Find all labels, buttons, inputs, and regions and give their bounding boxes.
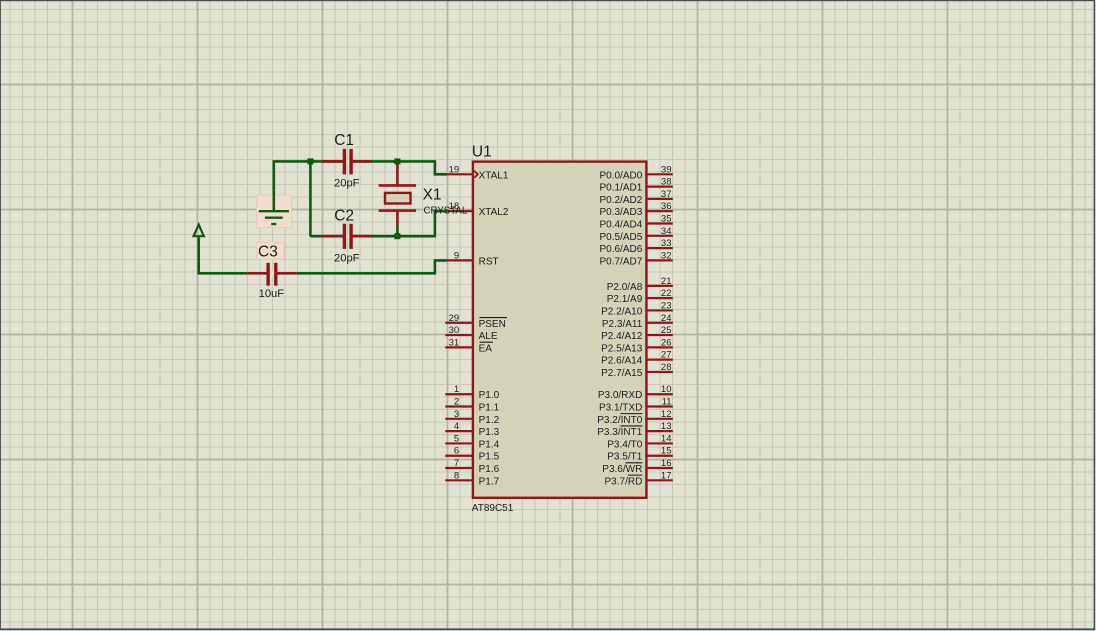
svg-text:24: 24 (661, 313, 672, 324)
svg-text:P2.0/A8: P2.0/A8 (607, 282, 643, 293)
svg-text:34: 34 (661, 226, 672, 237)
svg-text:P1.6: P1.6 (479, 464, 500, 475)
svg-text:9: 9 (454, 250, 459, 261)
svg-text:2: 2 (454, 397, 459, 408)
svg-text:P2.4/A12: P2.4/A12 (601, 331, 643, 342)
svg-text:20pF: 20pF (334, 252, 360, 264)
svg-text:38: 38 (661, 177, 672, 188)
svg-text:P1.1: P1.1 (479, 403, 500, 414)
svg-text:1: 1 (454, 384, 459, 395)
svg-text:RST: RST (479, 256, 499, 267)
svg-text:P2.2/A10: P2.2/A10 (601, 306, 643, 317)
svg-text:P3.7/RD: P3.7/RD (605, 476, 643, 487)
svg-text:11: 11 (662, 397, 672, 408)
svg-text:P1.4: P1.4 (479, 439, 500, 450)
svg-text:15: 15 (661, 446, 672, 457)
svg-text:20pF: 20pF (334, 177, 360, 189)
svg-text:P3.1/TXD: P3.1/TXD (599, 403, 642, 414)
svg-text:39: 39 (661, 164, 672, 175)
svg-text:XTAL2: XTAL2 (479, 207, 509, 218)
svg-text:32: 32 (661, 250, 672, 261)
svg-text:33: 33 (661, 238, 672, 249)
svg-text:P3.3/INT1: P3.3/INT1 (597, 427, 642, 438)
svg-text:8: 8 (454, 470, 459, 481)
svg-text:P1.2: P1.2 (479, 415, 500, 426)
svg-text:P0.7/AD7: P0.7/AD7 (599, 256, 642, 267)
svg-text:26: 26 (661, 337, 672, 348)
svg-text:27: 27 (661, 350, 672, 361)
svg-text:29: 29 (449, 313, 460, 324)
svg-text:7: 7 (454, 458, 459, 469)
svg-text:P2.1/A9: P2.1/A9 (607, 294, 643, 305)
svg-text:PSEN: PSEN (479, 319, 506, 330)
svg-text:10: 10 (661, 384, 672, 395)
svg-text:AT89C51: AT89C51 (472, 503, 514, 514)
svg-text:P2.3/A11: P2.3/A11 (602, 319, 643, 330)
svg-text:16: 16 (661, 458, 672, 469)
svg-text:22: 22 (661, 288, 672, 299)
svg-text:P0.6/AD6: P0.6/AD6 (599, 244, 642, 255)
svg-text:P2.7/A15: P2.7/A15 (601, 368, 643, 379)
svg-text:P3.5/T1: P3.5/T1 (607, 452, 642, 463)
svg-text:CRYSTAL: CRYSTAL (424, 206, 468, 217)
svg-text:P3.4/T0: P3.4/T0 (607, 439, 642, 450)
svg-text:P2.6/A14: P2.6/A14 (601, 356, 643, 367)
svg-text:31: 31 (449, 337, 460, 348)
svg-text:P1.3: P1.3 (479, 427, 500, 438)
svg-text:13: 13 (661, 421, 672, 432)
svg-text:P0.1/AD1: P0.1/AD1 (599, 183, 642, 194)
svg-text:35: 35 (661, 214, 672, 225)
svg-text:P0.4/AD4: P0.4/AD4 (599, 220, 642, 231)
svg-text:P3.0/RXD: P3.0/RXD (598, 390, 642, 401)
svg-text:ALE: ALE (479, 331, 498, 342)
svg-text:C1: C1 (334, 132, 354, 149)
svg-text:P1.5: P1.5 (479, 452, 500, 463)
svg-text:28: 28 (661, 362, 672, 373)
svg-text:P0.5/AD5: P0.5/AD5 (599, 232, 642, 243)
svg-text:P0.0/AD0: P0.0/AD0 (599, 170, 642, 181)
svg-text:P0.2/AD2: P0.2/AD2 (599, 195, 642, 206)
svg-text:C2: C2 (334, 208, 354, 225)
svg-text:10uF: 10uF (259, 288, 285, 300)
svg-text:14: 14 (661, 433, 672, 444)
svg-text:P0.3/AD3: P0.3/AD3 (599, 207, 642, 218)
svg-text:5: 5 (454, 433, 459, 444)
svg-text:37: 37 (661, 189, 672, 200)
svg-text:P1.0: P1.0 (479, 390, 500, 401)
svg-text:4: 4 (454, 421, 459, 432)
svg-text:XTAL1: XTAL1 (479, 170, 509, 181)
svg-text:21: 21 (661, 276, 672, 287)
svg-text:P2.5/A13: P2.5/A13 (601, 343, 643, 354)
svg-text:3: 3 (454, 409, 459, 420)
svg-text:17: 17 (661, 470, 672, 481)
svg-text:25: 25 (661, 325, 672, 336)
svg-text:23: 23 (661, 300, 672, 311)
svg-text:19: 19 (449, 164, 460, 175)
svg-text:C3: C3 (258, 243, 278, 260)
svg-text:P1.7: P1.7 (479, 476, 500, 487)
svg-text:12: 12 (661, 409, 672, 420)
svg-text:6: 6 (454, 446, 459, 457)
svg-text:P3.2/INT0: P3.2/INT0 (597, 415, 642, 426)
svg-text:36: 36 (661, 201, 672, 212)
svg-text:X1: X1 (423, 186, 442, 203)
svg-text:EA: EA (479, 343, 493, 354)
svg-text:P3.6/WR: P3.6/WR (602, 464, 642, 475)
svg-text:30: 30 (449, 325, 460, 336)
svg-text:U1: U1 (472, 143, 492, 160)
